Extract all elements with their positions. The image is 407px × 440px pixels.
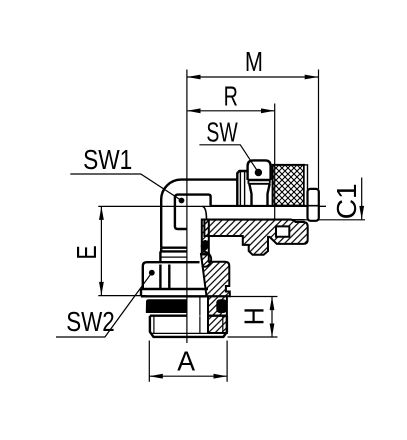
sleeve plain band <box>304 165 308 206</box>
thread minor lines <box>154 316 223 333</box>
end cap <box>308 189 319 221</box>
dim line H <box>271 297 273 337</box>
arrow R right <box>261 108 275 113</box>
dim line A <box>149 375 227 377</box>
elbow neck ring <box>161 256 187 258</box>
extension E bottom <box>98 295 146 297</box>
dim line M <box>187 76 318 78</box>
dot SW1 <box>179 198 185 204</box>
extension M right <box>318 70 320 190</box>
arrow E top <box>99 206 104 220</box>
stud thread outline <box>150 316 227 337</box>
extension R right <box>274 104 276 220</box>
leader SW2 <box>56 273 152 337</box>
leader SW1 <box>70 174 181 201</box>
svg-text:R: R <box>224 81 238 112</box>
stud core section <box>208 296 227 333</box>
cap top tick <box>319 205 326 207</box>
thread relief line <box>152 332 226 334</box>
cone body section <box>201 254 230 296</box>
stud bore line section <box>199 297 201 334</box>
hex nut lower taper <box>249 184 269 206</box>
svg-text:SW: SW <box>206 117 237 148</box>
extension A left <box>148 341 150 382</box>
arrow C1 down <box>359 206 364 220</box>
knurled sleeve <box>273 165 326 221</box>
svg-text:M: M <box>245 46 263 77</box>
body band section <box>204 220 307 255</box>
leader SW <box>199 145 258 173</box>
elbow stem wall section <box>202 220 209 255</box>
arrowheads <box>99 75 364 379</box>
svg-text:H: H <box>239 307 270 325</box>
hex SW2 outline <box>143 262 200 289</box>
svg-text:C1: C1 <box>331 183 362 219</box>
arrow H top <box>270 297 275 311</box>
o-ring band outside view <box>146 299 188 313</box>
arrow E bottom <box>99 282 104 296</box>
extension C1 line <box>207 219 366 221</box>
arrow M right <box>305 75 319 80</box>
extension A right <box>226 341 228 382</box>
arrow A left <box>149 374 163 379</box>
band top line thick part <box>207 219 305 221</box>
dot SW2 <box>149 270 155 276</box>
dot SW <box>255 169 262 176</box>
body top long line thick part <box>211 205 319 207</box>
elbow step rings <box>160 248 187 262</box>
svg-text:SW1: SW1 <box>83 144 132 175</box>
arrow R left <box>187 108 201 113</box>
hex SW2 bottom / washer <box>141 289 208 296</box>
elbow outer profile <box>161 180 237 248</box>
arrow A right <box>214 374 228 379</box>
retaining ring curl <box>203 252 212 267</box>
dim line R <box>187 110 275 112</box>
svg-text:SW2: SW2 <box>66 306 115 337</box>
elbow inner bore corner <box>175 195 211 229</box>
hex nut groove ring <box>248 180 269 184</box>
collar release guide <box>237 171 247 206</box>
dim line C1 <box>361 178 363 220</box>
centerline vertical axis <box>186 70 188 344</box>
collar inner lines <box>240 171 244 206</box>
extension H bottom <box>228 336 278 338</box>
svg-text:A: A <box>177 345 195 376</box>
swivel seal section left <box>200 239 210 251</box>
hex nut SW dome <box>248 160 271 180</box>
arrow H bottom <box>270 324 275 338</box>
dim line E <box>100 206 102 295</box>
extension H top <box>230 296 278 298</box>
svg-text:E: E <box>71 245 102 259</box>
arrow M left <box>187 75 201 80</box>
o-ring section blob <box>216 299 227 313</box>
extension E top long line <box>98 205 326 207</box>
inner fillet corner <box>203 206 207 220</box>
